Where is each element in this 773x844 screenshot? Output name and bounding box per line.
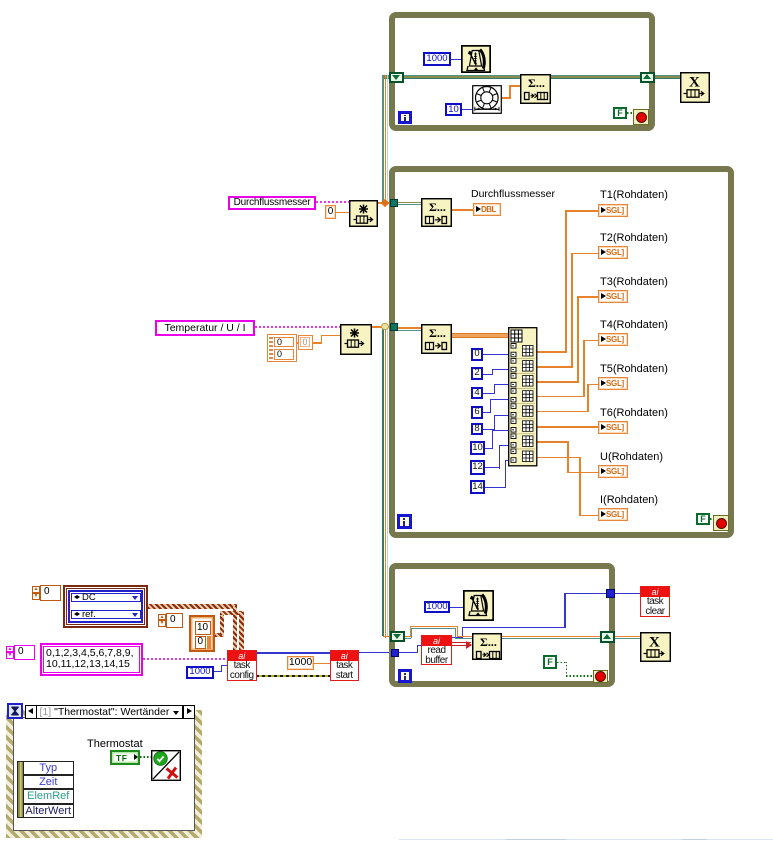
sum function (top loop) (520, 74, 551, 104)
wire (410, 626, 412, 638)
wire (457, 626, 459, 637)
tunnel blue (task start into bottom loop) (391, 649, 399, 657)
wire (314, 663, 330, 665)
wire (499, 445, 500, 469)
svg-text:Σ...: Σ... (528, 76, 545, 90)
numeric constant 0 (spinner, mid) (158, 614, 167, 627)
shift register left (top loop) (389, 72, 404, 83)
wire (336, 212, 349, 214)
wire 2D array to index block (452, 333, 508, 338)
string constant 0,1,2..15 (40, 643, 143, 676)
wire (537, 441, 567, 443)
indicator SGL I(Rohdaten) (598, 508, 628, 521)
wire (579, 457, 581, 517)
event data field Typ (23, 761, 75, 775)
wire (485, 467, 499, 468)
cluster constant DC/ref (63, 585, 148, 628)
stop button (middle loop) (713, 515, 729, 531)
shift register left (bottom loop) (390, 631, 405, 643)
wire (455, 628, 456, 638)
sum function (middle loop row1) (421, 198, 452, 227)
wire (452, 209, 473, 211)
wire (387, 327, 388, 636)
wire (583, 340, 585, 398)
wire (449, 607, 463, 608)
tunnel (Durchflussmesser into middle loop) (390, 199, 398, 207)
wire (451, 59, 461, 60)
label Thermostat (87, 738, 143, 750)
event structure inner border (13, 717, 195, 831)
wire (485, 448, 492, 449)
wire (483, 393, 494, 394)
wire (494, 384, 495, 394)
wire (577, 296, 598, 298)
wire (411, 628, 456, 629)
wire magenta dashed string to config (143, 658, 227, 660)
wire (417, 645, 418, 653)
label U(Rohdaten) (600, 451, 663, 463)
label T4(Rohdaten) (600, 319, 668, 331)
indicator SGL T2(Rohdaten) (598, 246, 628, 259)
wire (214, 671, 222, 672)
wire (483, 374, 492, 375)
junction dot (Durchflussmesser) (381, 198, 389, 206)
wire (385, 75, 387, 202)
constant 8 (index) (471, 423, 483, 436)
wire dotted TF to discard icon (140, 756, 151, 758)
wire (387, 75, 388, 202)
wire (567, 441, 569, 473)
wire (502, 636, 640, 638)
wire (537, 411, 587, 413)
label T6(Rohdaten) (600, 407, 668, 419)
wire (494, 415, 509, 416)
constant 0 (grey, element) (298, 335, 313, 350)
indicator SGL U(Rohdaten) (598, 465, 628, 478)
numeric constant 0 (spinner, pink) (6, 646, 15, 659)
indicator SGL T4(Rohdaten) (598, 333, 628, 346)
label I(Rohdaten) (600, 494, 658, 506)
fan icon (472, 85, 502, 114)
wire (411, 628, 412, 638)
numeric constant 0 (spinner, top) (32, 586, 41, 600)
constant 0 (orange, Durchflussmesser) (325, 205, 336, 219)
junction dot (Temperatur) (381, 323, 389, 331)
svg-text:X: X (689, 75, 700, 91)
indicator SGL T3(Rohdaten) (598, 290, 628, 303)
wire (492, 369, 508, 370)
wire (221, 665, 222, 673)
constant 0 (index) (471, 348, 483, 361)
wire (579, 515, 598, 517)
wire (382, 327, 383, 636)
tunnel (Temperatur into middle loop) (390, 323, 398, 331)
ring control ref. (71, 610, 141, 620)
wire (564, 593, 607, 594)
wire (537, 351, 565, 353)
wire (382, 78, 680, 79)
wire dotted F to stop (middle loop) (710, 518, 714, 520)
wire (615, 593, 640, 595)
wire (502, 97, 509, 99)
wire (452, 645, 471, 646)
wire (397, 202, 421, 204)
initialize array icon (Durchflussmesser) (349, 200, 378, 227)
svg-text:Σ...: Σ... (429, 200, 446, 214)
wire (417, 645, 421, 646)
index array function block (508, 327, 538, 467)
sum function (bottom loop) (472, 633, 502, 660)
wire (537, 457, 579, 459)
wire Temperatur string (dashed magenta) (255, 326, 340, 328)
wire (492, 430, 509, 431)
ai task start VI (330, 650, 359, 681)
wire (490, 399, 508, 400)
wire (490, 399, 491, 413)
wire (410, 626, 459, 628)
svg-text:X: X (649, 635, 660, 651)
wire (382, 75, 383, 202)
discard event icon (151, 750, 181, 781)
wire (509, 85, 520, 87)
wire (457, 636, 473, 638)
wire (321, 335, 323, 344)
wire (462, 627, 565, 628)
F constant (top loop) (613, 107, 627, 119)
wire (372, 326, 390, 328)
while loop (bottom) (389, 563, 616, 687)
wire (321, 335, 341, 337)
TF terminal Thermostat (110, 750, 140, 765)
string constant Durchflussmesser (228, 196, 316, 210)
indicator DBL Durchflussmesser (473, 203, 501, 216)
wire error dashed config to start (256, 675, 330, 678)
ai read buffer VI (421, 635, 452, 665)
iteration terminal i (middle loop) (397, 514, 412, 529)
constant 12 (index) (470, 460, 485, 475)
wire (565, 210, 598, 212)
event data field AlterWert (23, 804, 75, 818)
wire (537, 366, 571, 368)
event data node (17, 761, 74, 818)
constant 1000 (top loop wait) (423, 52, 451, 66)
constant 10 (index) (470, 441, 485, 456)
wire (583, 340, 598, 342)
wire (509, 85, 511, 99)
wire (587, 384, 589, 413)
wire (537, 381, 577, 383)
ai task config VI (227, 650, 257, 681)
event data field ElemRef (23, 789, 75, 803)
wire (462, 628, 463, 638)
event structure frame (6, 710, 202, 717)
label T3(Rohdaten) (600, 276, 668, 288)
wire (455, 638, 472, 639)
stop button (top loop) (633, 109, 649, 125)
shift register right (top loop) (640, 72, 655, 83)
wire (537, 396, 583, 398)
constant 14 (index) (470, 480, 485, 495)
svg-text:Σ...: Σ... (480, 635, 497, 649)
label T2(Rohdaten) (600, 232, 668, 244)
wire Durchflussmesser string (dashed magenta) (316, 201, 349, 203)
multiply X function (bottom right) (640, 632, 671, 662)
F constant (bottom loop) (543, 655, 557, 669)
wire (378, 202, 390, 204)
wire (397, 204, 421, 205)
event selector label (37, 705, 183, 719)
cluster constant 0/0 (Temperatur) (267, 334, 297, 362)
shift register right (bottom loop) (600, 631, 615, 643)
tunnel blue (task clear out of bottom loop) (606, 589, 615, 598)
wire (398, 652, 417, 653)
wire (452, 642, 471, 643)
wire (382, 75, 680, 76)
constant 2 (index) (471, 367, 483, 380)
wire braid cluster to ai task config (148, 604, 237, 609)
sum function (middle loop row2) (421, 324, 452, 354)
wire (358, 652, 391, 654)
constant 1000 (orange, start) (287, 656, 314, 670)
wire (505, 460, 509, 461)
wire (485, 487, 505, 488)
wire dotted F to stop (bottom loop) (557, 662, 567, 664)
wire (382, 76, 680, 78)
event timeout terminal (7, 703, 23, 719)
wire (221, 665, 227, 666)
label T5(Rohdaten) (600, 363, 668, 375)
wire (577, 296, 579, 383)
wire (494, 415, 495, 431)
wire (483, 412, 490, 413)
cluster constant 10/0 (189, 615, 215, 652)
wire dotted F to stop (top loop) (627, 112, 634, 114)
indicator SGL T5(Rohdaten) (598, 377, 628, 390)
wire (297, 342, 312, 344)
wire (312, 342, 322, 344)
wire (397, 327, 421, 329)
label Durchflussmesser (indicator) (471, 188, 555, 200)
while loop (middle) (389, 166, 734, 538)
wire (505, 460, 506, 489)
wire (537, 426, 598, 428)
wire (404, 636, 411, 638)
wire (571, 253, 573, 368)
stop button (bottom loop) (593, 670, 609, 683)
wait ms icon (top loop metronome) (461, 45, 491, 73)
wait ms icon (bottom loop metronome) (463, 590, 494, 621)
ai task clear VI (640, 586, 670, 617)
wire (492, 430, 493, 450)
wire (483, 429, 494, 430)
ring control DC (71, 593, 141, 603)
F constant (middle loop) (696, 513, 710, 525)
wire (502, 638, 640, 639)
window edge line (399, 839, 773, 841)
wire (397, 330, 421, 331)
constant 10 (fan) (445, 103, 462, 116)
svg-text:Σ...: Σ... (429, 326, 446, 340)
wire (494, 384, 508, 385)
wire (452, 637, 463, 638)
event selector right arrow (183, 705, 195, 719)
wire (383, 636, 391, 638)
constant 6 (index) (471, 406, 483, 419)
constant 4 (index) (471, 387, 483, 399)
wire (564, 593, 565, 629)
indicator SGL T1(Rohdaten) (598, 204, 628, 217)
wire (256, 652, 330, 654)
initialize array icon (Temperatur) (340, 324, 372, 355)
event data field Zeit (23, 775, 75, 789)
label T1(Rohdaten) (600, 189, 668, 201)
string constant Temperatur / U / I (155, 320, 255, 336)
wire (565, 210, 567, 353)
wire (404, 638, 411, 639)
wire (567, 472, 598, 474)
wire (483, 354, 508, 355)
indicator SGL T6(Rohdaten) (598, 421, 628, 434)
wire (462, 109, 472, 110)
wire braid cluster2 to ai task config (215, 633, 224, 638)
wire (571, 253, 598, 255)
wire (499, 445, 509, 446)
iteration terminal i (bottom loop) (398, 669, 412, 683)
wire (587, 384, 598, 386)
wire (385, 327, 387, 638)
wire (492, 369, 493, 375)
event selector left arrow (25, 705, 37, 719)
constant 1000 (bottom loop wait) (424, 601, 450, 613)
iteration terminal i (top loop) (398, 111, 412, 124)
multiply X function (top right) (680, 72, 710, 103)
while loop (top) (389, 12, 655, 131)
constant 1000 (blue, config) (186, 666, 214, 679)
